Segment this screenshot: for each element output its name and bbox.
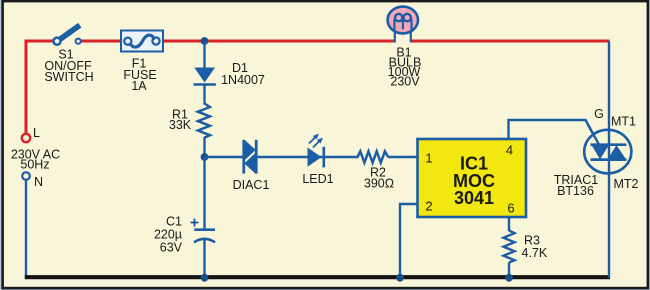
capacitor C1 <box>191 219 216 243</box>
wire: left vertical to L terminal <box>25 40 28 134</box>
svg-text:G: G <box>594 107 604 121</box>
svg-text:N: N <box>34 175 43 189</box>
svg-text:3041: 3041 <box>454 188 494 208</box>
node: pin2 junction on bus <box>396 274 404 282</box>
svg-text:1N4007: 1N4007 <box>221 73 265 87</box>
svg-text:SWITCH: SWITCH <box>44 70 93 84</box>
svg-text:C1: C1 <box>166 215 182 229</box>
svg-text:1A: 1A <box>131 79 147 93</box>
IC IC1 (optocoupler MOC3041) <box>418 139 527 217</box>
wire: neutral bus (bottom) <box>25 275 610 279</box>
wire: node A down to C1 <box>203 157 205 229</box>
wire: phase line from fuse to bulb <box>163 40 395 43</box>
svg-text:33K: 33K <box>169 118 192 132</box>
resistor R1 <box>198 104 210 138</box>
svg-text:6: 6 <box>507 201 514 216</box>
wire: R3 to neutral bus <box>508 263 510 278</box>
wire: IC1 pin4 to triac gate <box>509 120 599 144</box>
LED LED1 <box>308 134 324 168</box>
triac TRIAC1 <box>584 125 631 278</box>
node A: junction R1/C1/DIAC <box>201 153 209 161</box>
svg-text:63V: 63V <box>160 241 183 255</box>
diac DIAC1 <box>244 140 256 174</box>
wire: node A to IC1 pin1 (through DIAC, LED, R2) <box>205 156 244 158</box>
svg-text:DIAC1: DIAC1 <box>233 178 270 192</box>
fuse F1 <box>121 31 163 52</box>
svg-text:390Ω: 390Ω <box>364 177 394 191</box>
svg-text:BT136: BT136 <box>557 184 594 198</box>
terminal L <box>22 134 30 142</box>
svg-text:MT1: MT1 <box>611 115 636 129</box>
wire: phase line from bulb to right corner <box>411 40 610 43</box>
svg-text:1: 1 <box>425 151 432 166</box>
wire: phase line from switch to fuse <box>81 40 121 43</box>
svg-text:LED1: LED1 <box>302 172 333 186</box>
wire: right vertical MT1 lead <box>608 41 610 130</box>
node: R3 junction on bus <box>505 274 513 282</box>
switch S1 <box>52 27 81 46</box>
svg-text:4: 4 <box>506 143 513 158</box>
svg-text:50Hz: 50Hz <box>20 158 49 172</box>
wire: R1 to node A <box>203 137 205 157</box>
wire: D1 to R1 <box>203 85 205 105</box>
terminal N <box>22 172 30 180</box>
svg-text:4.7K: 4.7K <box>522 246 548 260</box>
resistor R3 <box>504 231 515 263</box>
svg-text:MT2: MT2 <box>614 177 639 191</box>
svg-text:L: L <box>33 126 40 140</box>
resistor R2 <box>358 151 389 162</box>
wire: N terminal down to neutral bus <box>25 180 27 279</box>
svg-text:230V: 230V <box>390 75 420 89</box>
node: C1 junction on bus <box>201 274 209 282</box>
wire: IC1 pin6 to R3 <box>508 217 510 231</box>
wire: junction to diode D1 <box>203 41 205 68</box>
diode D1 <box>194 68 216 85</box>
svg-text:220µ: 220µ <box>154 228 182 242</box>
wire: IC1 pin2 to neutral bus <box>400 204 418 278</box>
svg-text:2: 2 <box>425 199 432 214</box>
wire: phase line from corner to switch <box>26 40 54 43</box>
bulb B1 <box>388 7 418 43</box>
wire: C1 to neutral bus <box>203 239 205 278</box>
node: junction on phase line above D1 <box>201 37 209 45</box>
